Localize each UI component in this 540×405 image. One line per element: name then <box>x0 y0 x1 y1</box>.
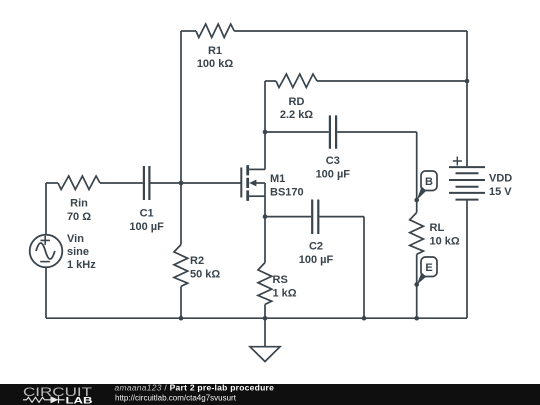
wire bottom rail <box>46 317 467 319</box>
wire battery bottom lead <box>466 200 468 319</box>
node B flag <box>414 171 437 202</box>
svg-text:C3: C3 <box>326 155 340 167</box>
resistor RS <box>258 263 272 305</box>
voltage source Vin <box>30 235 63 268</box>
svg-text:100 µF: 100 µF <box>316 169 351 181</box>
label R1 value <box>197 45 234 70</box>
svg-text:RS: RS <box>273 274 288 286</box>
label R2 value <box>190 255 220 281</box>
wire input left lead <box>46 182 58 184</box>
wire C3 left lead <box>265 131 329 133</box>
resistor Rin <box>58 176 100 190</box>
resistor RD <box>276 74 317 88</box>
svg-text:R1: R1 <box>208 45 222 57</box>
svg-text:15 V: 15 V <box>489 186 512 198</box>
label C3 value <box>316 155 351 181</box>
label RL value <box>430 222 460 248</box>
node junction gate/R1/R2 <box>179 181 184 186</box>
svg-text:100 µF: 100 µF <box>299 254 334 266</box>
footer bar <box>0 384 540 405</box>
transistor M1 <box>241 165 265 217</box>
wire RL to node E <box>416 254 418 284</box>
svg-text:Rin: Rin <box>70 198 88 210</box>
wire RD left lead <box>265 80 276 82</box>
node junction E/bottom <box>414 316 419 321</box>
wire drain column <box>264 81 266 169</box>
footer title text <box>115 382 275 402</box>
label E <box>425 262 432 274</box>
wire Vin top lead <box>45 183 47 235</box>
ground <box>250 318 280 361</box>
svg-text:R2: R2 <box>190 255 204 267</box>
label M1 value <box>270 173 304 199</box>
capacitor C3 <box>330 115 336 148</box>
svg-text:2.2 kΩ: 2.2 kΩ <box>280 109 313 121</box>
label RD value <box>280 96 313 121</box>
svg-text:http://circuitlab.com/cta4g7sv: http://circuitlab.com/cta4g7svusurt <box>115 393 237 402</box>
label Rin value <box>67 198 91 224</box>
svg-text:100 kΩ: 100 kΩ <box>197 58 234 70</box>
svg-text:C1: C1 <box>140 208 154 220</box>
capacitor C2 <box>312 200 318 235</box>
svg-text:VDD: VDD <box>489 173 512 185</box>
wire top-left lead to R1 <box>181 30 196 32</box>
svg-text:C2: C2 <box>309 241 323 253</box>
wire C2 left lead <box>265 216 311 218</box>
wire down to node B <box>416 132 418 200</box>
label B <box>425 176 433 188</box>
resistor R1 <box>196 24 234 38</box>
wire C2 down to bottom rail <box>363 217 365 319</box>
svg-text:B: B <box>425 176 433 188</box>
node junction R2/bottom <box>179 316 184 321</box>
capacitor C1 <box>144 166 150 200</box>
wire RS top lead <box>264 217 266 263</box>
label Vin value <box>67 233 96 271</box>
resistor RL <box>410 213 424 255</box>
wire R2 bottom lead <box>180 286 182 318</box>
wire E down to bottom rail <box>416 285 418 319</box>
svg-text:E: E <box>425 262 432 274</box>
wire RD to right column <box>317 80 467 82</box>
svg-text:LAB: LAB <box>66 395 93 405</box>
wire RS bottom lead <box>264 304 266 318</box>
label C2 value <box>299 241 334 267</box>
node junction RD/VDD <box>465 79 470 84</box>
battery VDD <box>449 157 485 200</box>
svg-text:amaana123 / Part 2 pre-lab pro: amaana123 / Part 2 pre-lab procedure <box>115 382 275 392</box>
label VDD value <box>489 173 512 199</box>
label C1 value <box>129 208 164 234</box>
node junction source/C2/RS <box>263 214 268 219</box>
svg-text:RL: RL <box>430 222 445 234</box>
svg-text:70 Ω: 70 Ω <box>67 211 91 223</box>
wire C1 to gate <box>151 182 242 184</box>
node E flag <box>414 257 437 287</box>
svg-text:M1: M1 <box>270 173 285 185</box>
logo CircuitLab <box>23 385 93 405</box>
wire R1 to top-right corner <box>234 30 467 32</box>
node junction C2/bottom <box>362 316 367 321</box>
svg-text:10 kΩ: 10 kΩ <box>430 236 460 248</box>
resistor R2 <box>174 245 188 287</box>
svg-text:100 µF: 100 µF <box>129 221 164 233</box>
svg-text:BS170: BS170 <box>270 187 304 199</box>
wire Vin bottom lead <box>45 267 47 318</box>
wire B to RL <box>416 200 418 213</box>
svg-text:Vin: Vin <box>67 233 84 245</box>
svg-text:1 kΩ: 1 kΩ <box>273 288 297 300</box>
svg-text:sine: sine <box>67 246 89 258</box>
wire Rin to C1 <box>100 182 143 184</box>
wire top from R1 left corner down to input node <box>180 31 182 183</box>
svg-text:RD: RD <box>289 96 305 108</box>
node junction drain/C3 <box>263 130 268 135</box>
wire right column down to battery <box>466 31 468 167</box>
label RS value <box>273 274 297 300</box>
wire C2 right lead <box>319 216 364 218</box>
node junction RS/ground <box>263 316 268 321</box>
svg-text:1 kHz: 1 kHz <box>67 259 96 271</box>
wire R2 top lead <box>180 183 182 245</box>
wire C3 right lead <box>337 131 417 133</box>
svg-text:50 kΩ: 50 kΩ <box>190 269 220 281</box>
